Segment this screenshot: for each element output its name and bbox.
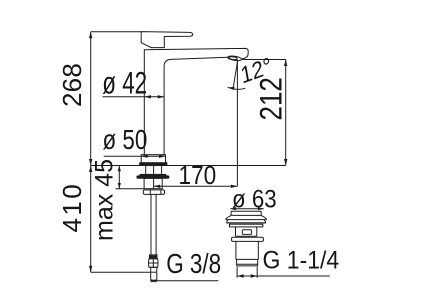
drain gasket [227, 220, 266, 223]
svg-text:ø 42: ø 42 [102, 65, 147, 101]
aerator [227, 55, 241, 61]
12 degree arc [228, 87, 246, 89]
drain tail tube [237, 259, 258, 266]
dimension line 212 [285, 60, 287, 166]
mounting nut [144, 178, 162, 188]
shank below counter [146, 166, 162, 189]
12 degree angled line [233, 60, 238, 88]
hose crimp ferrule [149, 255, 157, 259]
supply hose [151, 194, 156, 255]
G3/8 extension lines [151, 273, 157, 282]
drain lower flange [232, 237, 264, 241]
extension line top (268 datum) [91, 31, 142, 33]
svg-text:268: 268 [57, 63, 87, 107]
dimension line ø42 [103, 96, 165, 98]
drain cap [231, 211, 261, 215]
svg-text:212: 212 [254, 77, 289, 120]
svg-text:G 3/8: G 3/8 [166, 249, 221, 280]
spout body outline [144, 48, 248, 154]
dimension 268/410 vertical line [90, 32, 92, 273]
svg-text:ø 63: ø 63 [232, 185, 277, 214]
washer lower [137, 176, 169, 178]
drain cap skirt [226, 215, 266, 219]
countertop line [91, 165, 286, 167]
nipple end [151, 267, 157, 272]
drain slot [242, 230, 251, 235]
svg-text:ø 50: ø 50 [103, 125, 148, 156]
faucet base [141, 155, 165, 163]
hose connector nut G3/8 [149, 259, 159, 268]
svg-text:G 1-1/4: G 1-1/4 [263, 247, 340, 275]
dimension line ø50 [104, 155, 166, 157]
svg-text:410: 410 [57, 182, 87, 233]
base gasket [140, 163, 167, 165]
dimension line 170 [154, 185, 238, 187]
washer upper [140, 174, 166, 176]
dimension/leader G 1-1/4 [237, 275, 330, 277]
svg-text:170: 170 [179, 162, 217, 191]
drain extension lines [237, 267, 257, 278]
extension line bottom (410 datum) [91, 271, 151, 273]
extension line spout outlet (212 datum) [242, 59, 286, 61]
svg-text:max 45: max 45 [90, 159, 118, 241]
dimension/leader G 3/8 [151, 280, 219, 282]
12 degree reference vertical line [236, 60, 238, 186]
dimension ø63 [230, 208, 263, 210]
dimension max45 [115, 188, 144, 190]
drain body [236, 241, 258, 259]
handle lever [141, 32, 193, 48]
hose nut [143, 190, 164, 195]
drain neck [236, 227, 257, 236]
spout underside [164, 57, 228, 154]
drain flange [230, 224, 263, 227]
